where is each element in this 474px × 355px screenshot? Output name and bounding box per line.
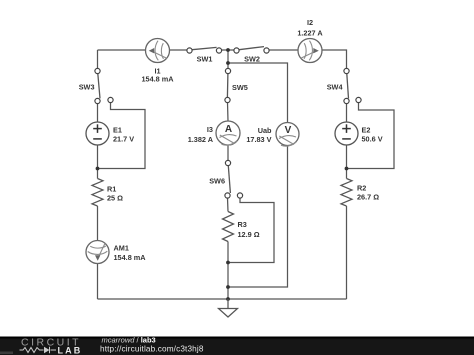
wire SW4 to E2: [346, 104, 348, 122]
footer left faint mark: [0, 352, 13, 355]
footer logo diode: [44, 347, 50, 353]
wire top left horizontal: [98, 49, 146, 51]
wire E1 bypass box: [98, 103, 146, 169]
svg-text:12.9 Ω: 12.9 Ω: [238, 230, 260, 239]
svg-text:SW4: SW4: [327, 83, 344, 92]
junction node A (top split): [226, 48, 230, 52]
svg-text:154.8 mA: 154.8 mA: [141, 75, 174, 84]
svg-text:SW1: SW1: [197, 55, 213, 64]
svg-text:SW2: SW2: [244, 55, 260, 64]
svg-text:21.7 V: 21.7 V: [113, 135, 134, 144]
svg-text:Uab: Uab: [258, 126, 272, 135]
switch SW1: [187, 47, 222, 53]
svg-text:154.8 mA: 154.8 mA: [114, 253, 147, 262]
wire node B to SW5: [227, 63, 229, 68]
wire E2 bypass box: [347, 103, 395, 169]
wire I2 to top right corner: [322, 50, 347, 68]
switch SW3: [95, 68, 113, 103]
wire bottom bus: [98, 298, 347, 300]
ammeter I3: [216, 121, 240, 145]
footer bar: [0, 337, 474, 355]
wire top between I1 and SW1: [170, 49, 188, 51]
svg-text:SW5: SW5: [232, 83, 248, 92]
svg-text:R2: R2: [357, 184, 366, 193]
switch SW2: [234, 47, 269, 54]
svg-text:E2: E2: [362, 126, 371, 135]
footer logo resistor zigzag: [20, 348, 57, 353]
wire left branch top: [97, 50, 99, 68]
voltmeter Uab: [276, 123, 299, 147]
svg-text:I3: I3: [207, 125, 213, 134]
svg-text:A: A: [225, 124, 232, 135]
svg-text:26.7 Ω: 26.7 Ω: [357, 193, 379, 202]
junction E2 box bottom: [345, 167, 349, 171]
wire node A down to node B: [227, 50, 229, 63]
svg-text:R3: R3: [238, 220, 247, 229]
ground: [219, 299, 238, 317]
svg-text:25 Ω: 25 Ω: [107, 194, 123, 203]
resistor R2: [341, 179, 352, 207]
wire R2 to bus: [346, 206, 348, 299]
resistor R3: [223, 212, 234, 242]
wire R3 bypass box: [228, 198, 274, 262]
svg-text:V: V: [285, 125, 292, 136]
svg-text:AM1: AM1: [114, 244, 129, 253]
voltage source E2: [335, 122, 358, 145]
svg-text:17.83 V: 17.83 V: [246, 135, 271, 144]
wire I3 to SW6: [227, 145, 229, 160]
switch SW4: [344, 68, 361, 103]
ammeter I1: [146, 39, 170, 63]
svg-text:SW3: SW3: [79, 83, 95, 92]
wire SW3 to E1: [97, 104, 99, 122]
ammeter I2: [298, 39, 322, 63]
wire SW1 to node A: [222, 49, 234, 51]
switch SW5: [225, 68, 231, 102]
wire SW2 to I2: [269, 49, 298, 51]
svg-text:mcarrowd / lab3: mcarrowd / lab3: [102, 336, 156, 345]
svg-text:SW6: SW6: [209, 177, 225, 186]
wire AM1 to bottom bus: [97, 264, 99, 300]
junction ground node: [226, 297, 230, 301]
svg-text:E1: E1: [113, 126, 122, 135]
svg-text:50.6 V: 50.6 V: [362, 135, 383, 144]
svg-text:I2: I2: [307, 18, 313, 27]
junction R3 box bottom: [226, 261, 230, 265]
svg-text:1.382 A: 1.382 A: [188, 135, 214, 144]
svg-text:1.227 A: 1.227 A: [297, 29, 323, 38]
wire node B feed to Uab: [228, 63, 288, 123]
wire SW5 to I3: [227, 103, 230, 121]
switch SW6: [225, 160, 243, 198]
svg-text:http://circuitlab.com/c3t3hj8: http://circuitlab.com/c3t3hj8: [100, 345, 204, 354]
svg-text:R1: R1: [107, 185, 116, 194]
svg-text:LAB: LAB: [58, 346, 83, 355]
wire SW6 to R3: [227, 198, 230, 211]
voltage source E1: [86, 122, 109, 145]
wire R3 to bus with junctions: [227, 242, 229, 300]
wire R1 to AM1: [97, 206, 99, 241]
resistor R1: [92, 179, 103, 207]
junction E1 box bottom: [96, 167, 100, 171]
junction Uab return: [226, 285, 230, 289]
junction node B (Uab feed): [226, 61, 230, 65]
ammeter AM1: [86, 241, 109, 264]
wire Uab bottom return: [228, 146, 288, 288]
wire E2 to R2: [346, 145, 348, 179]
wire E1 to R1: [97, 145, 99, 179]
